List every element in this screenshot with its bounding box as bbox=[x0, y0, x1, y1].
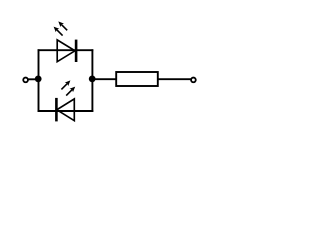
LED2 (bottom) triangle anode bbox=[57, 99, 75, 121]
left terminal bbox=[23, 78, 28, 83]
LED1 (top) triangle anode bbox=[57, 40, 75, 62]
wire: top branch bbox=[38, 49, 94, 51]
wire: left terminal to left rail bbox=[28, 78, 38, 80]
wire: right rail bbox=[91, 49, 93, 112]
LED2 light arrow 2 bbox=[66, 87, 75, 96]
LED1 light arrow 2 bbox=[54, 27, 63, 36]
resistor R (box) bbox=[116, 72, 158, 86]
LED1 light arrow 1 bbox=[58, 21, 67, 30]
wire: resistor to right terminal bbox=[158, 78, 191, 80]
wire: right rail to resistor bbox=[92, 78, 116, 80]
LED2 (bottom) cathode bar bbox=[55, 98, 58, 122]
junction dot left bbox=[35, 76, 42, 83]
wire: left rail bbox=[38, 49, 40, 112]
junction dot right bbox=[89, 76, 96, 83]
LED1 (top) cathode bar bbox=[75, 40, 78, 62]
right terminal bbox=[191, 78, 196, 83]
wire: bottom branch bbox=[38, 110, 94, 112]
LED2 light arrow 1 bbox=[61, 80, 70, 89]
